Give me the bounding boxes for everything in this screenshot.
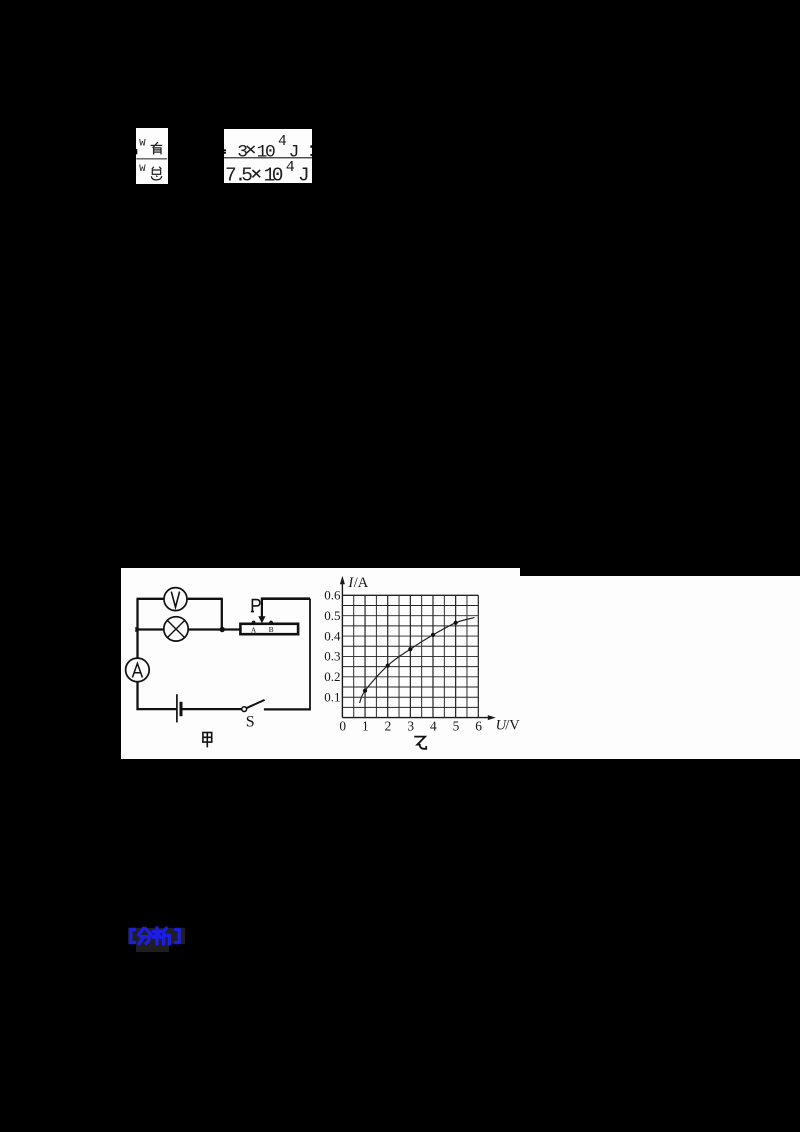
lamp cross (167, 620, 184, 637)
battery long plate (175, 694, 177, 722)
graph: y axis (342, 579, 491, 718)
x axis line (342, 716, 491, 718)
junction tick on left wire (135, 627, 141, 632)
wire right vertical (309, 598, 311, 709)
svg-text:J: J (298, 164, 310, 183)
svg-text:0: 0 (265, 142, 276, 162)
battery short plate (179, 702, 182, 716)
svg-text:0: 0 (272, 164, 284, 183)
rheostat body (240, 624, 298, 634)
svg-text:0.3: 0.3 (324, 648, 340, 663)
wire left vertical (136, 599, 138, 658)
slider stem (260, 598, 262, 617)
svg-text:W: W (139, 163, 146, 175)
svg-text:1: 1 (362, 718, 369, 733)
svg-text:W: W (139, 137, 146, 149)
svg-text:/V: /V (505, 717, 520, 733)
svg-text:2: 2 (384, 718, 391, 733)
clipped ':' fragment at right edge (310, 145, 312, 147)
label A (132, 663, 142, 677)
stray mark (clipped '=' from neighbour text) (136, 148, 137, 153)
svg-text:S: S (245, 713, 254, 730)
switch pivot (241, 706, 246, 711)
svg-text:4: 4 (429, 718, 436, 733)
wire bottom from right to switch (263, 708, 310, 710)
slider arrowhead (258, 616, 265, 623)
highlighted area behind blue heading (128, 928, 185, 944)
svg-text:0.6: 0.6 (324, 587, 341, 602)
wire bottom left (136, 708, 176, 710)
grid (352, 595, 354, 717)
x-axis arrowhead (487, 715, 495, 720)
voltmeter V (164, 587, 187, 610)
blue heading 【分析】 (126, 926, 186, 946)
lamp (163, 616, 187, 640)
svg-text:/A: /A (353, 575, 368, 591)
svg-text:0.5: 0.5 (324, 608, 340, 623)
wire lamp row (137, 628, 163, 630)
y-axis arrowhead (339, 576, 344, 584)
blank white image right part (520, 576, 800, 760)
clipped '=' fragment at left edge (224, 149, 226, 151)
svg-text:0.4: 0.4 (324, 628, 341, 643)
wire top horizontal (V branch) (136, 597, 164, 599)
formula box 3x10^4J / 7.5x10^4J (224, 129, 312, 184)
rheostat contact dots (251, 620, 255, 624)
y axis line (341, 579, 343, 718)
svg-text:4: 4 (278, 134, 287, 150)
svg-text:5: 5 (452, 718, 459, 733)
wire top right (260, 597, 309, 600)
switch blade (246, 700, 264, 708)
label jia (甲) (202, 732, 211, 747)
fen (139, 929, 143, 935)
label P (250, 599, 259, 611)
svg-text:6: 6 (475, 718, 482, 733)
I-U curve (359, 617, 474, 702)
wire V-branch vertical (220, 599, 222, 630)
svg-text:0.2: 0.2 (324, 669, 340, 684)
svg-text:B: B (268, 625, 273, 634)
junction node (219, 627, 224, 632)
right bracket (176, 929, 179, 942)
fraction bar (224, 157, 312, 158)
xi (155, 928, 158, 944)
总 glyph (denominator subscript) (152, 166, 162, 179)
figure image: circuit (jia) + graph (yi) (121, 568, 521, 759)
ammeter A (125, 658, 149, 682)
left bracket (131, 929, 134, 942)
有 glyph (numerator subscript) (151, 142, 163, 154)
label yi (乙) (414, 736, 426, 748)
data points (362, 688, 366, 692)
svg-text:4: 4 (286, 159, 295, 176)
formula box W有/W总 (136, 128, 168, 185)
svg-text:0: 0 (339, 718, 346, 733)
svg-text:0.1: 0.1 (324, 689, 340, 704)
svg-text:A: A (250, 625, 256, 634)
svg-text:5: 5 (241, 164, 253, 183)
svg-text:3: 3 (407, 718, 414, 733)
wire bottom battery to switch (182, 708, 242, 710)
fraction bar (137, 158, 168, 159)
label V (171, 591, 179, 607)
